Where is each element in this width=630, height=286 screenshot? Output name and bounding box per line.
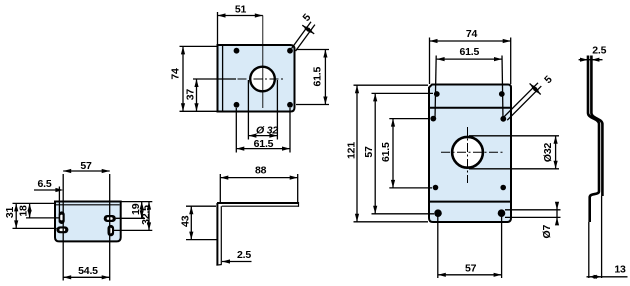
Z-profile view5 top strip left line xyxy=(588,56,599,223)
view4 hole row2 right xyxy=(500,116,506,122)
view4 bend line bottom xyxy=(430,201,510,203)
bracket view2 body xyxy=(55,202,121,242)
Z-profile view5 lower left extension xyxy=(588,222,590,278)
view2 slot top-right horizontal xyxy=(104,215,116,222)
view4 vertical centerline xyxy=(467,127,469,183)
svg-text:121: 121 xyxy=(346,142,358,159)
view2 extension line C xyxy=(109,174,111,281)
dimension 57 view2 xyxy=(63,160,109,173)
dimension 74 view4 xyxy=(430,28,511,84)
view4 horizontal centerline xyxy=(441,151,505,153)
svg-text:Ø 32: Ø 32 xyxy=(256,124,278,136)
svg-text:32.5: 32.5 xyxy=(140,205,152,225)
dimension 19 view2 xyxy=(116,202,153,219)
view1 hole top-left xyxy=(234,48,240,54)
svg-text:Ø7: Ø7 xyxy=(541,225,553,239)
view1 hole bottom-left xyxy=(234,102,240,108)
dimension 13 view5 xyxy=(587,263,628,279)
view4 hole row2 left xyxy=(430,116,436,122)
dimension diameter 32 view4 xyxy=(469,136,559,169)
view1 bend line xyxy=(222,46,224,111)
dimension diameter 7 view4 xyxy=(505,202,561,239)
svg-text:57: 57 xyxy=(465,262,477,274)
view2 slot top-left vertical xyxy=(59,211,65,224)
dimension 74 view1 xyxy=(170,46,217,111)
svg-text:13: 13 xyxy=(614,263,626,275)
dimension 6.5 view2 xyxy=(34,178,63,192)
dimension 5 diagonal view1 xyxy=(292,12,316,51)
dimension 61.5 bottom view1 xyxy=(236,108,290,153)
svg-text:31: 31 xyxy=(4,207,16,219)
dimension 43 view3 xyxy=(179,206,216,239)
view2 bend line xyxy=(56,204,120,206)
dimension 61.5 left view4 xyxy=(380,119,432,188)
view1 horizontal centerline xyxy=(238,78,284,80)
dimension 18 view2 xyxy=(17,203,59,218)
svg-text:57: 57 xyxy=(363,146,375,158)
svg-text:43: 43 xyxy=(179,215,191,227)
svg-text:2.5: 2.5 xyxy=(237,249,251,261)
dimension 31 view2 xyxy=(4,203,56,228)
view1 hole bottom-right xyxy=(287,102,293,108)
Z-profile view5 top strip right line xyxy=(591,56,602,197)
svg-text:57: 57 xyxy=(80,160,92,172)
dimension 2.5 view3 xyxy=(222,249,252,264)
svg-text:61.5: 61.5 xyxy=(254,138,274,150)
svg-text:18: 18 xyxy=(17,205,29,217)
plate view4 body xyxy=(429,85,511,223)
Z-profile view5 lower right edge line xyxy=(601,196,603,278)
svg-text:61.5: 61.5 xyxy=(312,67,324,87)
view4 hole row3 right xyxy=(500,185,506,191)
plate view1 body xyxy=(218,45,295,112)
view4 bend line top xyxy=(430,107,510,109)
L-bracket view3 horizontal strip xyxy=(217,202,299,207)
view2 slot lower-left horizontal xyxy=(56,226,68,233)
svg-text:51: 51 xyxy=(235,3,247,15)
view2 extension line B xyxy=(62,174,64,281)
dimension 51 xyxy=(218,3,263,44)
dimension 5 diagonal view4 xyxy=(504,73,555,120)
view4 hole row4 right xyxy=(498,209,506,217)
svg-text:6.5: 6.5 xyxy=(38,178,52,190)
dimension 121 view4 xyxy=(346,85,428,222)
dimension 2.5 view5 xyxy=(579,45,607,62)
svg-text:37: 37 xyxy=(185,89,197,101)
view4 hole row1 left xyxy=(434,91,440,97)
view4 hole row3 left xyxy=(433,185,439,191)
dimension 32.5 view2 xyxy=(114,202,152,231)
L-bracket view3 vertical strip xyxy=(216,203,221,265)
dimension 57 left view4 xyxy=(363,93,434,213)
view2 slot lower-right vertical xyxy=(108,225,115,236)
svg-text:54.5: 54.5 xyxy=(78,265,98,277)
svg-text:61.5: 61.5 xyxy=(380,142,392,162)
svg-text:88: 88 xyxy=(255,165,267,177)
view1 vertical centerline xyxy=(262,16,264,109)
dimension 88 view3 xyxy=(220,165,297,202)
dimension 37 view1 xyxy=(185,79,237,111)
view4 hole row1 right xyxy=(499,91,505,97)
svg-text:61.5: 61.5 xyxy=(459,46,479,58)
view1 center hole circle xyxy=(250,67,275,92)
view2 extension line A xyxy=(58,187,60,223)
dimension 57 bottom view4 xyxy=(438,217,502,279)
dimension diameter 32 view1 xyxy=(248,80,278,140)
svg-text:74: 74 xyxy=(466,28,478,40)
view4 center hole circle xyxy=(452,137,483,168)
svg-text:Ø32: Ø32 xyxy=(542,143,554,163)
view4 hole row4 left xyxy=(434,209,442,217)
dimension 61.5 right view1 xyxy=(296,50,329,105)
svg-text:74: 74 xyxy=(170,68,182,80)
dimension 54.5 view2 xyxy=(63,265,109,279)
view1 hole top-right xyxy=(287,48,293,54)
svg-text:2.5: 2.5 xyxy=(592,45,606,57)
dimension 61.5 top view4 xyxy=(435,46,503,119)
